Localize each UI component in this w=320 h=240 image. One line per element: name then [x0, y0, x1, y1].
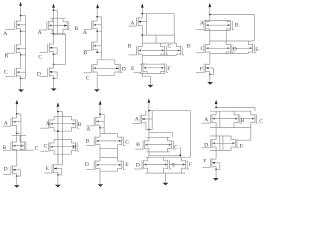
svg-text:A: A — [3, 31, 8, 37]
svg-text:B: B — [240, 118, 244, 124]
svg-text:C: C — [168, 43, 172, 49]
svg-text:A: A — [204, 117, 209, 123]
svg-text:B: B — [128, 44, 132, 50]
svg-text:B: B — [74, 26, 78, 32]
svg-text:A: A — [135, 117, 140, 123]
svg-text:F: F — [167, 66, 170, 72]
svg-text:C: C — [86, 76, 90, 82]
svg-text:D: D — [136, 163, 140, 169]
svg-text:D: D — [37, 71, 41, 77]
svg-text:A: A — [86, 127, 91, 133]
svg-text:D: D — [233, 47, 237, 53]
svg-text:C: C — [35, 146, 39, 152]
svg-text:E: E — [172, 163, 176, 169]
svg-text:C: C — [38, 55, 42, 61]
svg-text:E: E — [125, 162, 129, 168]
svg-text:B: B — [78, 122, 82, 128]
svg-text:C: C — [259, 119, 263, 125]
svg-text:D: D — [204, 142, 208, 148]
svg-text:F: F — [203, 159, 206, 165]
svg-text:D: D — [85, 162, 89, 168]
svg-text:E: E — [131, 66, 135, 72]
svg-text:B: B — [235, 22, 239, 28]
svg-text:D: D — [122, 66, 126, 72]
svg-text:F: F — [189, 162, 192, 168]
svg-text:E: E — [46, 166, 50, 172]
svg-text:F: F — [200, 66, 203, 72]
svg-text:C: C — [125, 140, 129, 146]
svg-text:A: A — [4, 120, 9, 126]
svg-text:B: B — [2, 145, 6, 151]
svg-text:C: C — [201, 46, 205, 52]
svg-text:D: D — [186, 43, 190, 49]
svg-text:B: B — [136, 142, 140, 148]
svg-text:D: D — [72, 144, 76, 150]
svg-text:B: B — [86, 139, 90, 145]
svg-text:E: E — [255, 47, 259, 53]
svg-text:C: C — [44, 143, 48, 149]
svg-text:A: A — [38, 30, 43, 36]
svg-text:B: B — [83, 50, 87, 56]
svg-text:E: E — [240, 144, 244, 150]
svg-text:B: B — [5, 54, 9, 60]
svg-text:C: C — [4, 69, 8, 75]
svg-text:C: C — [174, 144, 178, 150]
svg-text:D: D — [4, 167, 8, 173]
svg-text:A: A — [83, 30, 88, 36]
svg-text:A: A — [130, 20, 135, 26]
